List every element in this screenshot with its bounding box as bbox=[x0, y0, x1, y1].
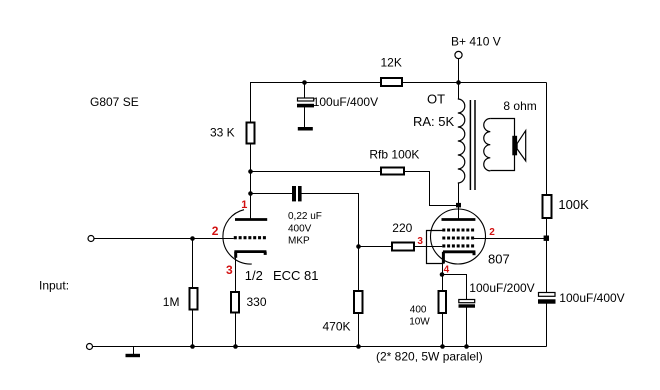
svg-text:MKP: MKP bbox=[288, 236, 310, 247]
tube U1 1/2 ECC 81 envelope arc bbox=[223, 210, 252, 264]
807 anode lead bbox=[458, 205, 460, 219]
svg-text:2: 2 bbox=[489, 227, 495, 238]
label 807 bbox=[488, 252, 510, 267]
ECC81 cathode bbox=[234, 252, 266, 258]
ECC81 anode plate bbox=[235, 218, 267, 221]
junction node 200V cap ground bbox=[464, 344, 469, 349]
svg-text:1M: 1M bbox=[163, 295, 180, 309]
label B+ 410 V bbox=[451, 35, 501, 49]
terminal input top bbox=[88, 236, 94, 242]
junction node top cap bbox=[302, 80, 307, 85]
pin 2 ECC81 bbox=[212, 224, 219, 238]
resistor 400 10W bbox=[409, 291, 446, 328]
capacitor 100uF/400V top filter bbox=[297, 95, 378, 109]
svg-text:807: 807 bbox=[488, 252, 510, 267]
svg-text:3: 3 bbox=[417, 236, 423, 247]
junction node coupling cap left bbox=[248, 191, 253, 196]
label Input: bbox=[39, 279, 69, 293]
svg-text:Input:: Input: bbox=[39, 279, 69, 293]
label 1/2 ECC 81 bbox=[245, 268, 319, 283]
wire top cap top lead bbox=[304, 82, 306, 99]
ground top cap bbox=[298, 127, 313, 131]
wire Rfb right segment to anode node bbox=[404, 172, 457, 206]
wire coupling cap right to grid rail bbox=[302, 194, 359, 291]
svg-text:2: 2 bbox=[212, 224, 219, 238]
capacitor 100uF/400V right bbox=[538, 291, 625, 305]
svg-text:12K: 12K bbox=[381, 56, 402, 70]
wire 100uF/200V bottom lead bbox=[466, 307, 468, 347]
resistor 470K bbox=[323, 291, 363, 333]
wire 330 bottom lead bbox=[235, 313, 237, 347]
tube V2 807 envelope bbox=[431, 209, 486, 264]
junction node pin4 bbox=[440, 272, 445, 277]
wire 33K bottom to ECC81 anode bbox=[250, 144, 252, 219]
capacitor C 0,22uF MKP coupling bbox=[288, 186, 322, 247]
pin 3 ECC81 bbox=[226, 263, 233, 277]
ECC81 grid (dotted) bbox=[234, 236, 266, 239]
resistor Rfb 100K bbox=[369, 148, 419, 175]
resistor 1M bbox=[163, 288, 198, 310]
svg-text:0,22 uF: 0,22 uF bbox=[288, 211, 322, 222]
wire OT primary bottom to anode node bbox=[458, 183, 460, 205]
wire pin4 node to 100uF/200V cap bbox=[443, 275, 467, 300]
wire right cap bottom to ground rail bbox=[546, 304, 548, 347]
resistor 12K bbox=[381, 56, 403, 87]
wire top cap bottom lead to ground bbox=[304, 107, 306, 128]
junction node Rfb left bbox=[248, 169, 253, 174]
resistor 330 bbox=[231, 292, 267, 313]
pin 4 807 bbox=[444, 265, 450, 276]
transformer OT secondary winding bbox=[484, 119, 491, 171]
wire left rail from top rail to 33K bbox=[250, 82, 252, 122]
svg-text:G807 SE: G807 SE bbox=[90, 95, 139, 109]
wire 1M top lead bbox=[192, 239, 194, 288]
wire input top to ECC81 grid bbox=[94, 238, 234, 240]
807 beam plates (dotted row 1) bbox=[442, 228, 474, 231]
junction node grid rail 220 bbox=[356, 244, 361, 249]
junction node 1M ground bbox=[190, 344, 195, 349]
wire 100K bottom to screen node to cap bbox=[546, 219, 548, 293]
svg-text:100uF/200V: 100uF/200V bbox=[469, 281, 534, 295]
807 screen grid (dotted row 2) bbox=[442, 236, 474, 239]
ground bottom rail bbox=[126, 346, 141, 357]
807 cathode bbox=[443, 252, 475, 264]
pin 3 807 bbox=[417, 236, 423, 247]
wire 220 right segment to 807 grid bbox=[414, 246, 442, 248]
wire ground rail bottom bbox=[93, 346, 547, 348]
wire 807 cathode pin4 down bbox=[442, 263, 444, 291]
wire 1M bottom lead bbox=[192, 310, 194, 347]
pin 2 807 bbox=[489, 227, 495, 238]
terminal input bottom bbox=[87, 344, 93, 350]
wire B+ terminal lead bbox=[458, 59, 460, 100]
svg-text:(2* 820, 5W paralel): (2* 820, 5W paralel) bbox=[376, 350, 483, 364]
speaker LS1 8 ohm bbox=[503, 99, 536, 161]
junction node 330 ground bbox=[233, 344, 238, 349]
svg-text:400V: 400V bbox=[288, 223, 312, 234]
wire coupling cap left bbox=[251, 193, 293, 195]
junction node anode OT (square) bbox=[456, 203, 461, 208]
svg-text:Rfb 100K: Rfb 100K bbox=[369, 148, 419, 162]
807 beam plate bracket bbox=[427, 231, 444, 264]
transformer OT primary winding bbox=[458, 99, 465, 183]
resistor 33K bbox=[210, 123, 255, 144]
807 control grid (dotted row 3) bbox=[442, 244, 474, 247]
label RA: 5K bbox=[413, 114, 455, 129]
terminal B+ 410 V bbox=[455, 51, 462, 58]
svg-text:470K: 470K bbox=[323, 319, 351, 333]
svg-text:RA: 5K: RA: 5K bbox=[413, 114, 455, 129]
wire 220 left segment bbox=[359, 246, 393, 248]
svg-text:100uF/400V: 100uF/400V bbox=[559, 291, 624, 305]
svg-text:3: 3 bbox=[226, 263, 233, 277]
svg-text:330: 330 bbox=[247, 295, 267, 309]
junction node input grid bbox=[190, 236, 195, 241]
label G807 SE bbox=[90, 95, 139, 109]
junction node B+ bbox=[456, 80, 461, 85]
junction node screen right rail (square) bbox=[544, 236, 549, 241]
svg-text:8 ohm: 8 ohm bbox=[503, 99, 536, 113]
wire ECC81 cathode to 330 bbox=[235, 256, 237, 292]
svg-text:10W: 10W bbox=[409, 317, 430, 328]
label note paralel bbox=[376, 350, 483, 364]
svg-text:100K: 100K bbox=[558, 197, 589, 212]
svg-text:1: 1 bbox=[241, 199, 247, 211]
svg-text:B+ 410 V: B+ 410 V bbox=[451, 35, 501, 49]
svg-text:4: 4 bbox=[444, 265, 450, 276]
svg-text:33 K: 33 K bbox=[210, 126, 235, 140]
wire 400 bottom lead bbox=[442, 313, 444, 347]
807 anode plate bbox=[442, 218, 476, 221]
svg-text:100uF/400V: 100uF/400V bbox=[313, 95, 378, 109]
resistor 220 bbox=[392, 221, 414, 251]
pin 1 ECC81 bbox=[241, 199, 247, 211]
svg-text:OT: OT bbox=[427, 92, 445, 107]
junction node 400 ground bbox=[440, 344, 445, 349]
wire secondary to speaker bbox=[490, 119, 514, 171]
junction node 470K ground bbox=[356, 344, 361, 349]
capacitor 100uF/200V bbox=[459, 281, 535, 308]
label OT bbox=[427, 92, 445, 107]
wire top rail B+ bbox=[251, 82, 547, 84]
wire Rfb left segment bbox=[251, 171, 382, 173]
svg-text:400: 400 bbox=[410, 305, 427, 316]
resistor 100K bbox=[543, 195, 590, 218]
svg-text:1/2 ECC 81: 1/2 ECC 81 bbox=[245, 268, 319, 283]
wire 470K bottom to ground rail bbox=[358, 314, 360, 347]
wire right rail top to 100K bbox=[546, 83, 548, 195]
wire 807 screen to right rail bbox=[474, 238, 547, 240]
svg-text:220: 220 bbox=[392, 221, 412, 235]
transformer OT core bbox=[470, 100, 475, 190]
